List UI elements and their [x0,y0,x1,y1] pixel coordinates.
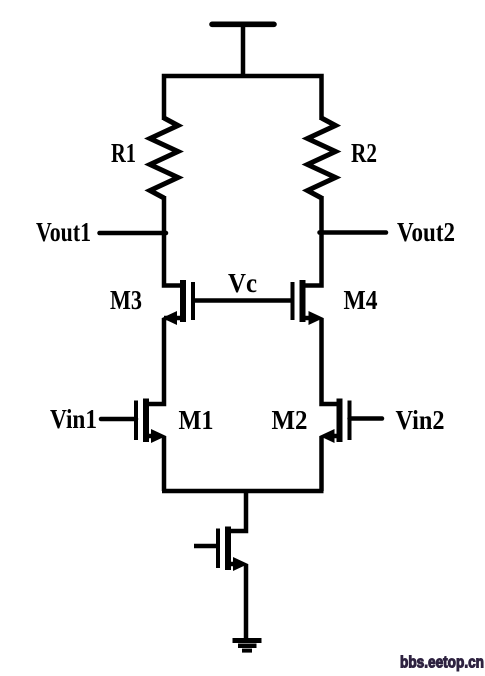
wire Vout1 tap [100,231,167,236]
label Vin1 [50,404,97,434]
svg-text:R1: R1 [111,138,136,168]
svg-text:Vin2: Vin2 [396,405,445,435]
wire M5 source to ground [244,564,249,640]
VDD supply bar [212,21,274,27]
label M4 [344,285,378,315]
svg-text:M1: M1 [179,405,214,435]
wire bottom tail rail [162,489,324,494]
wire Vc gate wire [193,298,292,303]
wire top rail [164,76,322,120]
wire M3 source to M1 drain [146,318,164,404]
svg-text:Vin1: Vin1 [50,404,97,434]
label Vc [228,268,257,298]
svg-text:M3: M3 [110,285,142,315]
svg-text:Vc: Vc [228,268,257,298]
transistor M3 [162,280,193,325]
svg-text:R2: R2 [351,138,377,168]
wire M2 source to tail rail [319,436,324,491]
label Vout2 [397,217,455,247]
wire left branch R1 to M3 drain [164,196,181,286]
svg-text:Vout2: Vout2 [397,217,455,247]
wire right branch R2 to M4 drain [304,196,322,286]
label R2 [351,138,377,168]
label Vin2 [396,405,445,435]
transistor M1 [136,399,166,444]
wire M4 source to M2 drain [322,318,340,404]
watermark bbs.eetop.cn [400,654,484,672]
label M1 [179,405,214,435]
transistor M4 [293,280,324,325]
wire Vin2 gate lead [350,416,383,421]
svg-text:M2: M2 [272,405,308,435]
svg-text:M4: M4 [344,285,378,315]
resistor R1 [150,118,178,198]
label M2 [272,405,308,435]
svg-text:Vout1: Vout1 [36,217,91,247]
svg-text:bbs.eetop.cn: bbs.eetop.cn [400,654,484,672]
transistor M2 [320,399,350,444]
ground [233,641,262,651]
resistor R2 [308,118,336,198]
label R1 [111,138,136,168]
wire M1 source to tail rail [162,436,167,491]
label Vout1 [36,217,91,247]
wire tail stem to M5 drain [228,491,246,531]
transistor M5 tail current source [194,527,248,572]
wire VDD stem [241,25,246,77]
wire Vout2 tap [320,230,387,235]
label M3 [110,285,142,315]
wire Vin1 gate lead [101,417,136,422]
